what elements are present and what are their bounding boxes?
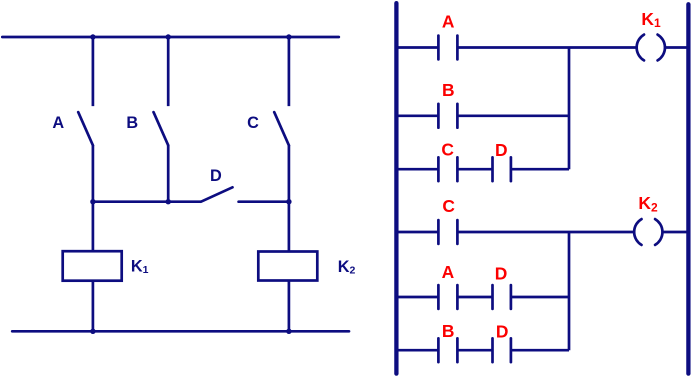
branch vertical rungs1-3 xyxy=(568,48,571,170)
svg-text:B: B xyxy=(126,114,138,132)
junction dot mid-B xyxy=(166,199,171,204)
contact B rung2 left bar xyxy=(437,104,440,128)
rung3 wire: rail to contact C xyxy=(397,168,438,171)
contact A rung1 right bar xyxy=(456,36,459,60)
wire: branch B upper xyxy=(167,37,170,106)
ladder right rail xyxy=(686,4,690,373)
contact C rung3 left bar xyxy=(437,157,440,181)
svg-text:A: A xyxy=(442,262,455,282)
coil K1 box xyxy=(63,251,122,281)
rung1 wire: rail to contact A xyxy=(397,46,438,49)
contact D rung5 left bar xyxy=(491,285,494,309)
coil K2 left paren xyxy=(634,219,641,245)
svg-text:K1: K1 xyxy=(131,257,149,275)
wire: branch B lower xyxy=(167,145,170,201)
switch D blade xyxy=(201,187,233,201)
rung3 wire: contact C to contact D xyxy=(457,168,492,171)
junction dot mid-A xyxy=(90,199,95,204)
svg-text:D: D xyxy=(496,321,509,341)
junction dot top-C xyxy=(286,34,291,39)
svg-text:C: C xyxy=(247,114,259,132)
rung5 wire: contact A to contact D xyxy=(457,296,492,299)
wire: K1 to bottom bus xyxy=(92,281,95,332)
contact A rung5 left bar xyxy=(437,285,440,309)
rung6 wire: contact D to branch xyxy=(511,349,569,352)
wire: node link A-B to D xyxy=(93,200,201,203)
contact A rung5 right bar xyxy=(456,285,459,309)
svg-text:B: B xyxy=(442,80,455,100)
junction dot bottom-K2 xyxy=(286,329,291,334)
svg-text:D: D xyxy=(495,264,508,284)
svg-text:K1: K1 xyxy=(641,9,661,30)
contact C rung3 right bar xyxy=(456,157,459,181)
junction dot mid-C xyxy=(286,199,291,204)
rung4 wire: coil K2 to rail xyxy=(662,231,688,234)
rung5 wire: rail to contact A xyxy=(397,296,438,299)
coil K2 box xyxy=(258,252,317,281)
contact D rung6 left bar xyxy=(491,338,494,362)
coil K2 right paren xyxy=(655,219,662,245)
wire: branch C upper xyxy=(288,37,291,106)
contact D rung3 left bar xyxy=(491,157,494,181)
contact B rung6 right bar xyxy=(456,338,459,362)
contact B rung2 right bar xyxy=(456,104,459,128)
svg-text:C: C xyxy=(441,140,454,160)
junction dot top-B xyxy=(166,34,171,39)
wire: bottom bus xyxy=(12,330,349,333)
rung6 wire: rail to contact B xyxy=(397,349,438,352)
wire: D to C branch xyxy=(239,200,289,203)
svg-text:A: A xyxy=(52,114,64,132)
rung1 wire: contact A to coil K1 xyxy=(457,46,636,49)
rung3 wire: contact D to branch xyxy=(511,168,569,171)
junction dot top-A xyxy=(90,34,95,39)
junction dot bottom-K1 xyxy=(90,329,95,334)
rung4 wire: contact C to coil K2 xyxy=(457,231,634,234)
rung6 wire: contact B to contact D xyxy=(457,349,492,352)
contact C rung4 left bar xyxy=(437,220,440,244)
svg-text:A: A xyxy=(442,12,455,32)
contact D rung6 right bar xyxy=(510,338,513,362)
switch A blade xyxy=(78,112,93,145)
rung1 wire: coil K1 to rail xyxy=(665,46,689,49)
rung2 wire: contact B to branch xyxy=(457,114,569,117)
wire: branch A upper xyxy=(92,37,95,106)
switch C blade xyxy=(274,112,289,145)
svg-text:K2: K2 xyxy=(638,193,658,214)
coil K1 right paren xyxy=(658,35,665,61)
contact D rung5 right bar xyxy=(510,285,513,309)
svg-text:D: D xyxy=(210,167,222,185)
wire: branch C lower xyxy=(288,145,291,251)
branch vertical rungs4-6 xyxy=(568,232,571,350)
ladder left rail xyxy=(394,3,398,373)
contact D rung3 right bar xyxy=(510,157,513,181)
coil K1 left paren xyxy=(637,35,644,61)
svg-text:D: D xyxy=(495,140,508,160)
contact A rung1 left bar xyxy=(437,36,440,60)
rung5 wire: contact D to branch xyxy=(511,296,569,299)
contact B rung6 left bar xyxy=(437,338,440,362)
wire: branch A lower xyxy=(92,145,95,251)
svg-text:C: C xyxy=(442,196,455,216)
contact C rung4 right bar xyxy=(456,220,459,244)
switch B blade xyxy=(154,112,169,145)
wire: top bus xyxy=(2,36,339,39)
svg-text:K2: K2 xyxy=(338,258,356,276)
svg-text:B: B xyxy=(442,321,455,341)
wire: K2 to bottom bus xyxy=(288,281,291,332)
rung2 wire: rail to contact B xyxy=(397,114,438,117)
rung4 wire: rail to contact C xyxy=(397,231,438,234)
